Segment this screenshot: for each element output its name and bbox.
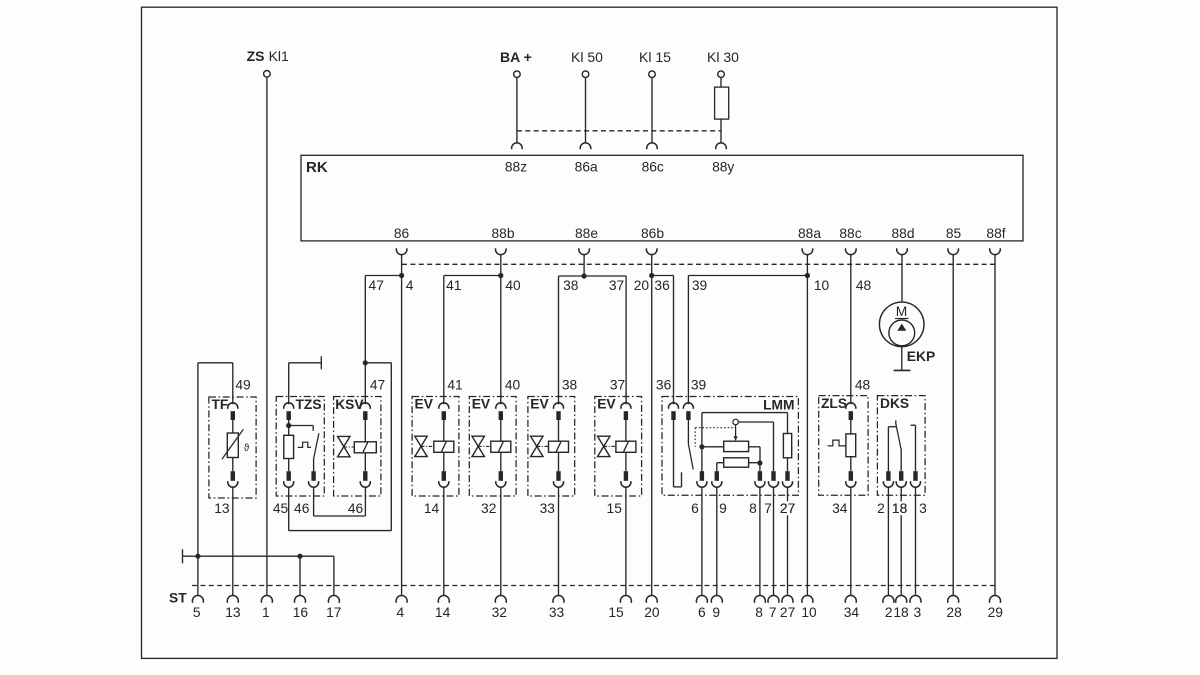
svg-text:14: 14 <box>435 605 451 620</box>
svg-text:EV: EV <box>530 397 549 412</box>
svg-text:17: 17 <box>326 605 341 620</box>
svg-text:34: 34 <box>832 501 848 516</box>
svg-text:47: 47 <box>370 378 385 393</box>
svg-text:88z: 88z <box>505 160 527 175</box>
svg-text:8: 8 <box>749 501 757 516</box>
svg-text:48: 48 <box>855 378 871 393</box>
svg-text:4: 4 <box>396 605 404 620</box>
svg-text:20: 20 <box>634 278 650 293</box>
svg-text:2: 2 <box>885 605 893 620</box>
svg-text:6: 6 <box>698 605 706 620</box>
svg-text:3: 3 <box>919 501 927 516</box>
svg-text:ZS: ZS <box>247 48 265 64</box>
svg-text:20: 20 <box>644 605 660 620</box>
svg-text:40: 40 <box>505 378 521 393</box>
svg-text:15: 15 <box>607 501 623 516</box>
svg-text:10: 10 <box>801 605 817 620</box>
svg-text:39: 39 <box>692 278 708 293</box>
svg-text:86c: 86c <box>642 160 664 175</box>
svg-text:33: 33 <box>540 501 556 516</box>
svg-text:14: 14 <box>424 501 440 516</box>
svg-text:7: 7 <box>769 605 777 620</box>
svg-text:37: 37 <box>610 378 625 393</box>
svg-text:27: 27 <box>780 501 795 516</box>
svg-text:33: 33 <box>549 605 565 620</box>
svg-text:29: 29 <box>988 605 1004 620</box>
svg-text:Kl 50: Kl 50 <box>571 49 603 65</box>
svg-text:45: 45 <box>273 501 289 516</box>
svg-text:88e: 88e <box>575 226 598 241</box>
svg-text:EKP: EKP <box>907 349 935 364</box>
svg-text:28: 28 <box>946 605 962 620</box>
svg-text:18: 18 <box>892 501 908 516</box>
svg-text:EV: EV <box>597 397 616 412</box>
svg-text:88b: 88b <box>491 226 514 241</box>
svg-text:2: 2 <box>877 501 885 516</box>
svg-text:EV: EV <box>472 397 491 412</box>
svg-text:9: 9 <box>719 501 727 516</box>
svg-text:49: 49 <box>235 378 251 393</box>
svg-text:Kl 30: Kl 30 <box>707 49 739 65</box>
svg-text:86a: 86a <box>575 160 598 175</box>
svg-text:88c: 88c <box>839 226 861 241</box>
svg-text:15: 15 <box>608 605 624 620</box>
svg-text:9: 9 <box>712 605 720 620</box>
svg-text:32: 32 <box>481 501 496 516</box>
svg-text:ST: ST <box>169 591 187 606</box>
svg-text:85: 85 <box>946 226 962 241</box>
svg-text:13: 13 <box>214 501 230 516</box>
svg-text:Kl 15: Kl 15 <box>639 49 671 65</box>
svg-text:LMM: LMM <box>763 398 794 413</box>
svg-text:37: 37 <box>609 278 624 293</box>
svg-text:88y: 88y <box>712 160 734 175</box>
svg-text:ZLS: ZLS <box>821 396 847 411</box>
svg-text:48: 48 <box>856 278 872 293</box>
svg-text:39: 39 <box>691 378 707 393</box>
svg-text:36: 36 <box>656 378 672 393</box>
svg-text:10: 10 <box>814 278 830 293</box>
svg-text:3: 3 <box>914 605 922 620</box>
svg-text:4: 4 <box>406 278 414 293</box>
svg-text:34: 34 <box>844 605 860 620</box>
svg-text:18: 18 <box>893 605 909 620</box>
svg-text:TZS: TZS <box>296 397 322 412</box>
svg-text:38: 38 <box>562 378 578 393</box>
svg-text:88f: 88f <box>986 226 1005 241</box>
svg-text:41: 41 <box>446 278 461 293</box>
svg-text:ϑ: ϑ <box>244 443 250 454</box>
svg-text:1: 1 <box>262 605 270 620</box>
svg-text:5: 5 <box>193 605 201 620</box>
svg-text:7: 7 <box>764 501 772 516</box>
svg-text:16: 16 <box>293 605 309 620</box>
svg-text:EV: EV <box>415 397 434 412</box>
svg-text:RK: RK <box>306 159 328 176</box>
svg-text:M: M <box>896 304 908 319</box>
svg-text:41: 41 <box>447 378 462 393</box>
svg-text:88a: 88a <box>798 226 821 241</box>
svg-text:13: 13 <box>225 605 241 620</box>
svg-text:KSV: KSV <box>335 397 364 412</box>
svg-text:6: 6 <box>691 501 699 516</box>
svg-text:BA +: BA + <box>500 49 532 65</box>
svg-text:27: 27 <box>780 605 795 620</box>
svg-text:47: 47 <box>369 278 384 293</box>
svg-text:88d: 88d <box>891 226 914 241</box>
svg-text:46: 46 <box>348 501 364 516</box>
svg-text:8: 8 <box>755 605 763 620</box>
svg-text:32: 32 <box>492 605 507 620</box>
svg-text:36: 36 <box>654 278 670 293</box>
svg-text:Kl1: Kl1 <box>269 48 289 64</box>
svg-text:46: 46 <box>294 501 310 516</box>
svg-text:DKS: DKS <box>880 396 909 411</box>
svg-text:TF: TF <box>212 397 229 412</box>
svg-text:86: 86 <box>394 226 410 241</box>
svg-text:86b: 86b <box>641 226 664 241</box>
svg-text:38: 38 <box>563 278 579 293</box>
svg-text:40: 40 <box>505 278 521 293</box>
